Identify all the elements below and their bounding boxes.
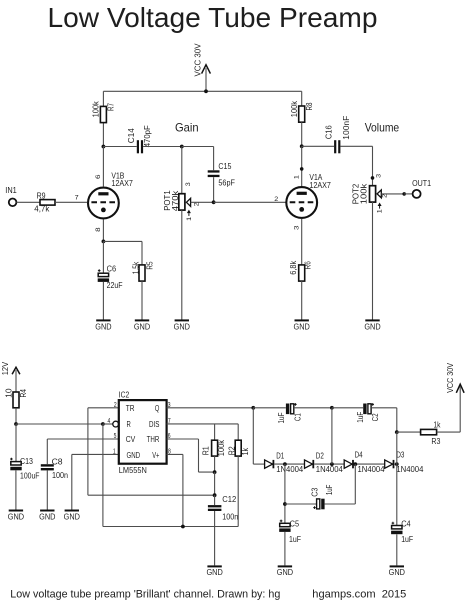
node OUT1 wire dot (402, 192, 406, 196)
svg-text:IN1: IN1 (5, 186, 17, 195)
svg-text:2: 2 (114, 402, 117, 409)
node Vplus junction (181, 525, 185, 529)
wire C14 to junction (143, 146, 182, 148)
capacitor C12 100n (208, 495, 238, 565)
tube triode V1A 12AX7 (274, 173, 331, 265)
svg-text:R9: R9 (37, 191, 46, 200)
wire IN1 to R9 (16, 201, 40, 203)
capacitor C6 22uF (98, 265, 123, 320)
svg-text:1: 1 (294, 175, 301, 179)
node 12V junction (14, 422, 18, 426)
node D1 D2 junction (283, 462, 287, 466)
svg-text:1uF: 1uF (289, 535, 301, 544)
node V1A pin1 dot (300, 167, 304, 171)
svg-text:GND: GND (277, 568, 294, 577)
svg-text:R4: R4 (19, 389, 28, 398)
node D2 D4 junction (330, 462, 334, 466)
svg-text:GND: GND (364, 323, 381, 332)
resistor R5 1,5k (131, 241, 154, 319)
diode D1 1N4004 (265, 452, 304, 474)
svg-text:R6: R6 (304, 261, 313, 270)
svg-text:R1: R1 (202, 446, 211, 455)
capacitor C8 100n (41, 439, 68, 510)
resistor R7 100k (92, 91, 116, 146)
wire cathode to C6 (102, 241, 104, 273)
node Q output junction (251, 406, 255, 410)
svg-text:Low voltage tube preamp 'Brill: Low voltage tube preamp 'Brillant' chann… (10, 588, 280, 600)
wire junction to C16 (302, 145, 334, 147)
svg-text:1uF: 1uF (325, 485, 334, 496)
ground under C5 (277, 566, 294, 577)
node R7 bottom junction (102, 145, 106, 149)
svg-text:VCC 30V: VCC 30V (446, 362, 455, 393)
svg-text:C4: C4 (401, 519, 411, 528)
wire junction to C15 branch (182, 146, 214, 148)
wire 12V rail to reset (16, 423, 103, 425)
svg-text:Q: Q (155, 404, 160, 413)
svg-text:TR: TR (126, 404, 135, 413)
svg-text:DIS: DIS (149, 420, 159, 429)
svg-text:GND: GND (8, 512, 25, 521)
svg-text:22uF: 22uF (107, 281, 123, 290)
ground under C6 (95, 320, 112, 331)
svg-text:1N4004: 1N4004 (396, 465, 424, 474)
capacitor C3 1uF (285, 464, 355, 509)
svg-text:4: 4 (108, 418, 111, 425)
node D4 D3 junction (353, 462, 357, 466)
svg-text:100uF: 100uF (20, 472, 40, 481)
svg-text:100k: 100k (217, 439, 226, 456)
node cathode junction (102, 240, 106, 244)
svg-text:C1: C1 (294, 413, 303, 421)
svg-text:IC2: IC2 (119, 391, 130, 400)
svg-text:C14: C14 (127, 128, 136, 144)
wire 12V to C13 (15, 424, 17, 462)
wire wiper to V1A grid (214, 201, 286, 203)
svg-text:7: 7 (75, 195, 79, 202)
svg-text:6: 6 (95, 174, 102, 179)
resistor R9 4,7k (34, 191, 55, 213)
node C14 out junction (180, 145, 184, 149)
node C1 C2 junction (330, 406, 334, 410)
wire CV pin5 (47, 438, 119, 440)
wire GND pin1 (72, 453, 119, 455)
svg-text:C12: C12 (222, 495, 237, 504)
capacitor C14 470pF (127, 125, 152, 153)
node D3 cathode junction (395, 462, 399, 466)
svg-text:100nF: 100nF (342, 116, 351, 140)
svg-text:1: 1 (186, 216, 193, 220)
ground under C13 (8, 511, 25, 522)
svg-text:OUT1: OUT1 (412, 179, 431, 188)
node R1 bottom junction (213, 470, 217, 474)
ground under R5 (134, 320, 151, 331)
svg-text:1uF: 1uF (401, 535, 413, 544)
svg-text:V+: V+ (152, 451, 159, 460)
potentiometer POT2 100k (352, 173, 389, 319)
svg-text:C8: C8 (52, 457, 64, 466)
tube triode V1B 12AX7 (75, 147, 134, 242)
svg-text:GND: GND (95, 323, 112, 332)
svg-text:1k: 1k (241, 447, 250, 455)
svg-text:R5: R5 (146, 261, 155, 270)
svg-text:C6: C6 (107, 265, 117, 274)
svg-text:10: 10 (4, 388, 13, 398)
svg-text:100n: 100n (222, 512, 238, 521)
svg-text:2: 2 (274, 196, 278, 203)
svg-text:100k: 100k (290, 100, 299, 117)
svg-text:Volume: Volume (365, 120, 400, 134)
svg-text:R8: R8 (305, 102, 314, 110)
svg-text:GND: GND (134, 323, 151, 332)
svg-text:GND: GND (389, 568, 406, 577)
svg-text:GND: GND (127, 451, 141, 460)
svg-text:100k: 100k (359, 183, 368, 205)
svg-text:GND: GND (294, 323, 311, 332)
svg-text:C13: C13 (20, 457, 33, 466)
wire D1 node to C5 (284, 464, 286, 523)
pin 4 inversion bubble (113, 421, 119, 427)
capacitor C4 1uF (391, 464, 413, 565)
power VCC 30V top (193, 43, 210, 91)
node VCC junction (204, 89, 208, 93)
svg-text:12AX7: 12AX7 (309, 181, 331, 190)
wire TR pin2 (88, 407, 119, 409)
svg-text:VCC 30V: VCC 30V (193, 43, 202, 77)
wire Vplus pin8 (167, 453, 183, 455)
resistor R6 6,8k (289, 260, 312, 320)
svg-text:6,8k: 6,8k (289, 260, 298, 275)
svg-text:1: 1 (376, 209, 383, 213)
svg-text:1N4004: 1N4004 (358, 465, 386, 474)
node reset junction (101, 422, 105, 426)
svg-text:C3: C3 (311, 487, 320, 496)
resistor R2 1k (228, 440, 251, 526)
svg-text:8: 8 (95, 227, 102, 232)
wire R9 to V1B grid (55, 201, 87, 203)
ground under C4 (389, 566, 406, 577)
node R8 bottom junction (300, 144, 304, 148)
node POT1 wiper junction (212, 200, 216, 204)
svg-text:R3: R3 (431, 437, 440, 446)
svg-text:GND: GND (39, 512, 56, 521)
capacitor C2 1uF (356, 403, 380, 423)
svg-text:1: 1 (113, 448, 116, 455)
svg-text:1N4004: 1N4004 (316, 465, 344, 474)
svg-text:D2: D2 (316, 452, 324, 461)
ground under C12 (206, 566, 223, 577)
svg-text:GND: GND (64, 512, 81, 521)
wire DIS pin7 (167, 423, 239, 425)
wire top rail (103, 90, 301, 92)
svg-text:D3: D3 (396, 451, 404, 460)
svg-text:3: 3 (185, 182, 192, 186)
svg-text:1,5k: 1,5k (131, 261, 140, 274)
resistor R3 1k (397, 421, 460, 447)
svg-text:56pF: 56pF (218, 178, 235, 187)
wire cathode to R5 branch (103, 240, 142, 242)
capacitor C5 1uF (279, 519, 301, 565)
svg-text:THR: THR (147, 435, 160, 444)
capacitor C1 1uF (277, 403, 303, 423)
ground under R6 (294, 320, 311, 331)
terminal OUT1 (412, 179, 431, 198)
resistor R1 100k (202, 424, 227, 472)
svg-text:hgamps.com 2015: hgamps.com 2015 (312, 589, 406, 601)
ground under POT2 (364, 320, 381, 331)
wire Q to diode row (252, 408, 254, 464)
wire THR pin6 (167, 438, 199, 440)
svg-text:Gain: Gain (175, 120, 199, 134)
svg-text:LM555N: LM555N (119, 465, 147, 475)
svg-text:D1: D1 (276, 452, 284, 461)
node R3 junction (395, 430, 399, 434)
svg-text:Low Voltage Tube Preamp: Low Voltage Tube Preamp (48, 2, 378, 33)
capacitor C13 100uF (10, 457, 39, 510)
wire junction to C14 (103, 146, 136, 148)
diode D2 1N4004 (305, 452, 344, 474)
svg-text:R2: R2 (228, 446, 237, 455)
power 12V input (1, 361, 20, 392)
svg-text:12V: 12V (1, 361, 10, 375)
svg-text:470pF: 470pF (143, 125, 152, 147)
svg-text:2: 2 (193, 202, 200, 206)
power VCC 30V output (446, 362, 464, 432)
capacitor C16 100nF (324, 116, 351, 154)
ground under POT1 (174, 320, 191, 331)
svg-text:1uF: 1uF (356, 412, 365, 423)
wire R8 junction to V1A anode (301, 146, 303, 186)
diode D4 1N4004 (344, 451, 385, 474)
ground under C8 (39, 511, 56, 522)
svg-text:GND: GND (206, 568, 223, 577)
diode D3 1N4004 (385, 451, 424, 474)
wire Q pin3 (167, 407, 254, 409)
svg-text:C2: C2 (371, 413, 380, 421)
svg-text:4,7k: 4,7k (34, 205, 50, 214)
svg-text:470k: 470k (171, 190, 180, 212)
svg-text:12AX7: 12AX7 (111, 179, 133, 188)
svg-text:1k: 1k (434, 421, 442, 430)
svg-text:C16: C16 (324, 125, 333, 140)
wire C16 to POT2 (340, 145, 372, 147)
svg-text:100k: 100k (92, 100, 101, 117)
wire Vplus rail (102, 424, 104, 527)
svg-text:1N4004: 1N4004 (276, 465, 304, 474)
wire POT2 wiper to OUT1 (381, 193, 404, 195)
svg-text:C5: C5 (290, 519, 300, 528)
svg-text:R: R (127, 420, 131, 429)
svg-text:100n: 100n (52, 471, 68, 480)
resistor R8 100k (290, 91, 314, 146)
terminal IN1 (5, 186, 17, 206)
op-amp IC2 LM555N timer (108, 391, 171, 475)
node POT2 pin3 dot (371, 176, 375, 180)
svg-text:R7: R7 (107, 103, 116, 111)
svg-text:D4: D4 (355, 451, 363, 460)
node TR junction (213, 493, 217, 497)
svg-text:CV: CV (126, 435, 136, 444)
svg-text:5: 5 (114, 433, 117, 440)
ground under IC pin1 (64, 511, 81, 522)
node C3 left junction (283, 502, 287, 506)
svg-text:C15: C15 (218, 162, 231, 171)
svg-text:3: 3 (375, 173, 382, 177)
svg-text:GND: GND (174, 323, 191, 332)
svg-text:1uF: 1uF (277, 412, 286, 423)
potentiometer POT1 470k (163, 147, 213, 320)
svg-text:3: 3 (294, 225, 301, 230)
resistor R4 10 (4, 388, 28, 424)
capacitor C15 56pF (208, 147, 235, 203)
